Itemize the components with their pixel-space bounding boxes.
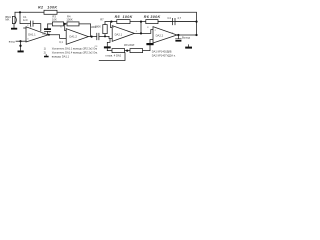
svg-text:DA1 КР140УД8Б: DA1 КР140УД8Б xyxy=(152,50,172,54)
resistor R8a xyxy=(112,49,125,53)
svg-text:MK: MK xyxy=(5,18,9,22)
node input junction dot xyxy=(19,40,21,42)
resistor R6 xyxy=(146,20,158,24)
svg-text:к выв. 4 DA2: к выв. 4 DA2 xyxy=(106,54,122,58)
svg-text:Усилитель DA1.1 выводы 2R2 2к2: Усилитель DA1.1 выводы 2R2 2к2 Ом xyxy=(52,47,98,51)
wire U1 output xyxy=(48,35,66,39)
wire input down xyxy=(20,41,22,45)
svg-text:6: 6 xyxy=(60,27,62,29)
node output terminal dot xyxy=(195,34,197,36)
svg-text:2: 2 xyxy=(27,25,29,27)
svg-text:DA2 КР1407УД2А п.: DA2 КР1407УД2А п. xyxy=(152,53,176,57)
node rail2 mid dot xyxy=(140,21,142,23)
op-amp U4 DA2.2 xyxy=(153,27,177,43)
svg-text:C2: C2 xyxy=(42,32,46,36)
capacitor C3 xyxy=(97,33,99,40)
wire C3 to node B xyxy=(99,35,109,37)
op-amp U2 DA1.2 xyxy=(66,29,88,45)
svg-text:R2 100K: R2 100K xyxy=(38,6,57,10)
wire U3 output to U4 xyxy=(134,30,153,34)
svg-text:1: 1 xyxy=(49,32,51,34)
node R3-R4 junction dot xyxy=(64,23,66,25)
svg-text:DA1.2: DA1.2 xyxy=(69,34,77,38)
wire R3-R4 junction xyxy=(64,23,67,25)
wire R4 to U2 output node xyxy=(79,24,91,37)
ground (U3) xyxy=(104,46,111,48)
svg-text:1n0: 1n0 xyxy=(23,18,28,22)
wire U4 output xyxy=(177,34,197,36)
svg-text:вход: вход xyxy=(9,41,15,44)
wire to pin annotation xyxy=(99,53,125,61)
svg-text:DA2.2: DA2.2 xyxy=(156,33,164,37)
svg-text:R8 100K: R8 100K xyxy=(124,43,135,47)
svg-text:C4: C4 xyxy=(167,16,171,20)
ground (mic) xyxy=(11,28,17,30)
capacitor C5 to ground xyxy=(176,35,182,39)
svg-text:4,7: 4,7 xyxy=(177,16,181,20)
svg-text:1): 1) xyxy=(44,47,46,51)
node rail2 right dot xyxy=(195,21,197,23)
node U3 output dot xyxy=(140,32,142,34)
node rail2 left dot xyxy=(110,21,112,23)
node U1 output dot xyxy=(48,34,50,36)
svg-text:0,1: 0,1 xyxy=(59,40,63,44)
resistor R3 xyxy=(52,22,63,26)
ground (U4) xyxy=(146,43,153,45)
node bottom rail dot xyxy=(126,50,128,52)
node bottom junction xyxy=(125,50,130,52)
svg-text:DA2.1: DA2.1 xyxy=(115,32,123,36)
node input lower dot xyxy=(19,45,21,47)
resistor R8b xyxy=(130,49,143,53)
svg-text:100K: 100K xyxy=(95,25,101,29)
svg-text:Усилитель DA1.4 выводы 2R2 2к2: Усилитель DA1.4 выводы 2R2 2к2 Ом. xyxy=(52,50,98,54)
node A junction dot on rail1 xyxy=(19,11,21,13)
resistor R2 xyxy=(44,10,57,14)
op-amp U3 DA2.1 xyxy=(112,26,134,42)
capacitor C4 xyxy=(158,18,197,24)
wire junction to U2 inverting input xyxy=(65,24,67,31)
note text line C legend ground xyxy=(45,55,47,56)
svg-text:1: 1 xyxy=(136,31,138,33)
svg-text:R7: R7 xyxy=(100,18,104,22)
wire C3 node to U3 plus input xyxy=(109,36,112,38)
wire rail2 down to U3 out node xyxy=(140,22,142,34)
wire U2 output xyxy=(88,36,96,38)
svg-text:2): 2) xyxy=(44,50,46,54)
wire node A down to C1 xyxy=(20,12,30,23)
resistor R5 xyxy=(117,20,130,24)
svg-text:10K: 10K xyxy=(52,18,57,22)
op-amp U1 DA1.1 xyxy=(26,27,48,42)
resistor R4 xyxy=(67,22,79,26)
svg-text:100K: 100K xyxy=(66,18,72,22)
svg-text:Выход: Выход xyxy=(182,35,190,39)
wire inverting input tick xyxy=(24,27,26,29)
node U2 output dot xyxy=(91,36,93,38)
wire C2 top to R3 xyxy=(48,23,53,25)
wire U3 plus input ground branch xyxy=(107,38,110,46)
wire input to ground xyxy=(20,46,22,51)
wire rail2 to U3 inverting input xyxy=(111,22,113,28)
wire top rail1 with right drop xyxy=(15,12,197,35)
node output dot xyxy=(177,34,179,36)
svg-text:DA1.1: DA1.1 xyxy=(28,33,36,37)
resistor R7 vertical xyxy=(104,34,106,37)
wire rail2 xyxy=(105,21,197,23)
wire bottom rail right to ground xyxy=(143,45,150,50)
node input2 wire xyxy=(16,40,26,42)
svg-text:8: 8 xyxy=(147,27,149,29)
wire C1 to T1 input xyxy=(33,24,41,31)
wire mic to ground xyxy=(13,24,15,28)
svg-text:R6 300K: R6 300K xyxy=(144,15,161,19)
ground (input) xyxy=(18,51,24,53)
ground (legend) xyxy=(188,45,190,47)
node B dot xyxy=(104,35,106,37)
svg-text:R5 100K: R5 100K xyxy=(115,15,133,19)
capacitor C2 (electrolytic) xyxy=(45,31,51,34)
capacitor C1 xyxy=(31,21,33,26)
microphone BM1 xyxy=(14,12,16,16)
svg-text:выводы DA1.1: выводы DA1.1 xyxy=(52,54,70,58)
wire bottom rail xyxy=(107,50,112,52)
wire U4 plus input xyxy=(150,40,153,43)
